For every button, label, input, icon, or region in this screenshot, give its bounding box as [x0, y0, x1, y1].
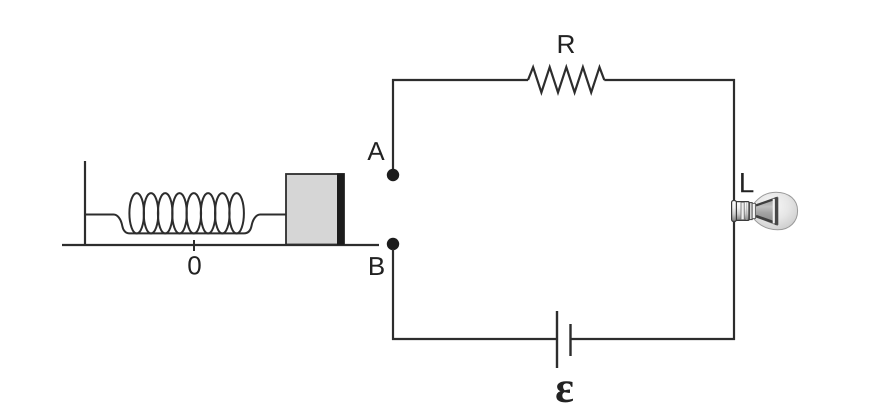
wire: bottom horizontal, left of battery	[392, 338, 556, 340]
mass block	[286, 173, 345, 245]
label A	[367, 142, 384, 160]
wire: left vertical from node B down to bottom wire	[392, 249, 394, 340]
wall (left fixed support)	[84, 161, 86, 245]
wire: right vertical	[733, 79, 735, 340]
label B	[370, 257, 384, 275]
lamp L (light bulb)	[732, 192, 798, 230]
label R	[559, 35, 575, 53]
spring	[85, 193, 286, 233]
wire: top horizontal, left of resistor	[392, 79, 528, 81]
label 0	[188, 256, 200, 275]
wire: bottom horizontal, right of battery	[572, 338, 736, 340]
wire: top horizontal, right of resistor	[604, 79, 735, 81]
node A (switch contact)	[387, 169, 399, 181]
node B (switch contact)	[387, 238, 399, 250]
equilibrium tick mark	[193, 240, 195, 251]
wire: left vertical from top wire down to node A	[392, 79, 394, 170]
label L	[741, 173, 753, 192]
battery plate short (negative)	[569, 324, 571, 356]
surface (ground line)	[62, 244, 379, 246]
label ε (emf)	[556, 381, 573, 402]
battery plate long (positive)	[556, 311, 558, 368]
resistor R	[528, 67, 604, 92]
